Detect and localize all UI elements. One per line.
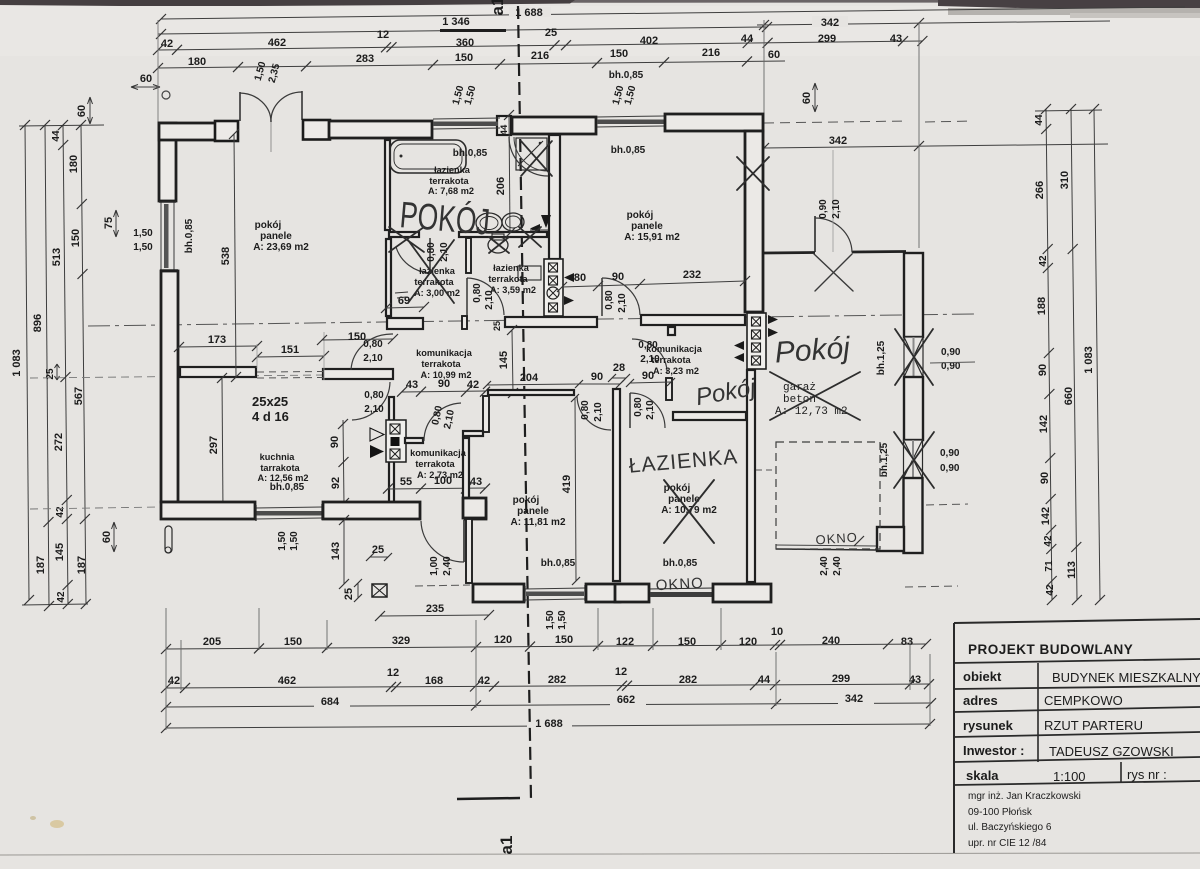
- svg-text:terrakota: terrakota: [415, 459, 455, 469]
- svg-text:09-100 Płońsk: 09-100 Płońsk: [968, 807, 1033, 818]
- door pokoj 15,91-komunikacja arc lower: [632, 339, 667, 373]
- svg-text:282: 282: [548, 674, 566, 686]
- svg-text:bh.0,85: bh.0,85: [184, 218, 195, 253]
- section line a1 vertical dashed: [518, 6, 531, 800]
- svg-text:Pokój: Pokój: [774, 331, 852, 369]
- wall pokoj 11,81 / 10,79 divider (12): [613, 389, 620, 581]
- svg-text:90: 90: [1039, 472, 1051, 484]
- wall pokoj 10,79 right / garage left lower: [747, 370, 755, 582]
- svg-text:143: 143: [330, 542, 342, 560]
- svg-text:A: 3,00 m2: A: 3,00 m2: [414, 288, 460, 298]
- svg-text:bh.0,85: bh.0,85: [663, 558, 698, 569]
- black triangle marker at shower wall: [541, 215, 551, 228]
- left dimension column 44-513-272-42-145-42: [63, 125, 68, 604]
- svg-text:bh.1,25: bh.1,25: [879, 442, 890, 477]
- handwritten X over basins: [519, 227, 541, 247]
- svg-text:42: 42: [168, 675, 180, 687]
- window top 216 (pokoj 15,91): [597, 120, 664, 125]
- svg-text:180: 180: [188, 56, 206, 68]
- svg-text:1,50: 1,50: [133, 242, 153, 253]
- svg-text:2,10: 2,10: [363, 353, 383, 364]
- svg-text:1 083: 1 083: [11, 349, 23, 377]
- svg-text:187: 187: [76, 556, 88, 574]
- right columns top connector line: [1035, 110, 1102, 111]
- svg-text:150: 150: [284, 636, 302, 648]
- balcony double door leaves: [239, 92, 241, 121]
- corridor north wall y316: center segment: [462, 316, 467, 329]
- svg-text:142: 142: [1038, 415, 1050, 433]
- svg-text:266: 266: [1034, 181, 1046, 199]
- svg-text:299: 299: [832, 673, 850, 685]
- left dimension column 896-187: [45, 125, 49, 606]
- bottom wall east of entrance: [465, 502, 486, 519]
- right dimension column 310-660-113: [1071, 109, 1077, 600]
- svg-text:90: 90: [612, 271, 624, 283]
- svg-text:42: 42: [161, 38, 173, 50]
- wall garage right: bottom segment outlined: [904, 478, 923, 553]
- svg-text:188: 188: [1036, 297, 1048, 315]
- svg-text:25x25: 25x25: [252, 394, 288, 409]
- extension line garage wall top: [763, 20, 765, 150]
- wall top row: segment balcony to lazienka: [329, 121, 432, 138]
- svg-text:0,80: 0,80: [472, 283, 483, 303]
- svg-text:1,50: 1,50: [289, 531, 300, 551]
- wall top row: pokoj 23,69 left segment: [159, 123, 217, 140]
- door kuchnia upper arc: [351, 334, 393, 370]
- svg-text:0,80: 0,80: [426, 242, 437, 262]
- svg-text:CEMPKOWO: CEMPKOWO: [1044, 693, 1123, 708]
- garage dashed inner line: [756, 469, 776, 471]
- svg-text:POKÓJ: POKÓJ: [398, 194, 491, 243]
- wall left exterior lower: [161, 271, 178, 502]
- right dimension column 1083: [1094, 109, 1100, 600]
- dimension row 342 garage top: [757, 21, 1110, 25]
- svg-text:A: 15,91 m2: A: 15,91 m2: [624, 232, 680, 243]
- svg-text:panele: panele: [517, 506, 549, 517]
- door lazienka 3,00 leaf and arc: [429, 238, 431, 273]
- pokoj 11,81 south wall west segment: [473, 584, 524, 602]
- pillar 25x25 at entrance: [372, 584, 387, 597]
- svg-text:462: 462: [268, 37, 286, 49]
- svg-text:90: 90: [591, 371, 603, 383]
- svg-text:42: 42: [55, 506, 66, 518]
- svg-text:150: 150: [455, 52, 473, 64]
- svg-text:OKNO: OKNO: [655, 575, 704, 594]
- svg-text:OKNO: OKNO: [815, 530, 858, 548]
- svg-text:bh.0,85: bh.0,85: [453, 148, 488, 159]
- svg-text:2,10: 2,10: [645, 400, 656, 420]
- svg-text:A: 11,81 m2: A: 11,81 m2: [510, 517, 565, 528]
- corridor north wall y316: east segment: [641, 315, 745, 325]
- washbasin 1 lazienka 3,59: [476, 213, 502, 233]
- wall under bathtub row (lazienka 7,68 south): [459, 232, 547, 237]
- svg-text:terrakota: terrakota: [429, 176, 469, 186]
- svg-text:662: 662: [617, 694, 635, 706]
- svg-text:2,10: 2,10: [364, 404, 384, 415]
- chimney block in garage wall: [747, 313, 766, 369]
- lazienka 3,00 top wall stub: [389, 232, 419, 237]
- dim row 55-100-43 komunikacja: [388, 488, 486, 489]
- svg-text:10: 10: [771, 626, 783, 638]
- svg-text:42: 42: [1038, 255, 1049, 267]
- bottom dim row 2: 42-462-12-168-42-282-12-282-44-299-43: [166, 684, 930, 688]
- svg-text:obiekt: obiekt: [963, 669, 1002, 684]
- wall pokoj 11,81 bay west: [466, 519, 472, 583]
- svg-text:80: 80: [574, 272, 586, 284]
- dim row 43-90-42 above pokoj 11,81: [402, 391, 486, 392]
- svg-text:ul. Baczyńskiego 6: ul. Baczyńskiego 6: [968, 822, 1052, 833]
- svg-text:PROJEKT BUDOWLANY: PROJEKT BUDOWLANY: [968, 642, 1133, 657]
- dim 143 vertical: [343, 520, 345, 584]
- left extension line to top rows: [157, 20, 159, 122]
- vent triangles: [564, 273, 574, 282]
- svg-text:90: 90: [1037, 364, 1049, 376]
- svg-text:0,80: 0,80: [363, 339, 383, 350]
- small circle mark at wall corner: [162, 91, 170, 99]
- handwritten X garage right window upper: [895, 329, 933, 385]
- yellow specks bottom left: [50, 820, 64, 828]
- svg-text:43: 43: [406, 379, 418, 391]
- svg-text:145: 145: [54, 543, 66, 561]
- corridor south wall: west segment: [180, 367, 256, 377]
- dim 75 rotated with arrows: [115, 210, 117, 237]
- svg-text:120: 120: [494, 634, 512, 646]
- svg-text:pokój: pokój: [627, 210, 654, 221]
- corridor north wall y316: west stub: [387, 318, 423, 329]
- dim 25 pillar horizontal: [370, 556, 388, 558]
- garage door scribble X below opening: [814, 254, 853, 291]
- toilet lazienka 3,59: [488, 237, 508, 253]
- handwritten X over wall stub near POKOJ: [389, 227, 424, 252]
- svg-text:42: 42: [1045, 584, 1056, 596]
- svg-text:342: 342: [845, 693, 863, 705]
- dim 90 door pokoj 10,79: [630, 382, 671, 383]
- svg-text:25: 25: [343, 588, 355, 600]
- left dimension column 180-150-567: [81, 125, 86, 604]
- middle horizontal dash-dot line: [88, 314, 975, 326]
- door komunikacja 2,73 arc: [424, 403, 461, 441]
- svg-text:92: 92: [330, 477, 342, 489]
- wall interior 12 between pokoj and lazienka (upper): [385, 140, 390, 230]
- svg-text:44: 44: [758, 674, 771, 686]
- svg-text:216: 216: [531, 50, 549, 62]
- handwritten X over garaz label: [770, 372, 860, 420]
- svg-text:0,90: 0,90: [941, 347, 961, 358]
- garage dashed projection rectangle: [776, 442, 880, 549]
- dim 204 + 90 above pokoj 11,81: [487, 384, 579, 385]
- pillar notch under wall: [668, 327, 675, 335]
- door lazienka 3,59 leaf+arc: [466, 278, 468, 316]
- dim 28 stub: [612, 377, 626, 379]
- svg-text:1:100: 1:100: [1053, 769, 1086, 784]
- window pokoj 10,79 OKNO with dark sill: [650, 592, 712, 597]
- dim 25 pillar rotated: [357, 583, 359, 598]
- svg-text:adres: adres: [963, 693, 998, 708]
- dim 60 left top with arrows: [131, 86, 160, 88]
- garage right window 2 with X (0,90): [904, 440, 923, 478]
- svg-text:a1: a1: [488, 0, 507, 15]
- svg-text:terrakota: terrakota: [651, 355, 691, 365]
- window pokoj 11,81 1,50: [525, 588, 585, 589]
- svg-text:71: 71: [1044, 560, 1055, 572]
- svg-text:60: 60: [76, 105, 88, 117]
- svg-text:terrakota: terrakota: [421, 359, 461, 369]
- svg-text:206: 206: [495, 177, 507, 195]
- svg-text:panele: panele: [631, 221, 663, 232]
- svg-text:komunikacja: komunikacja: [410, 448, 467, 458]
- garage top dim 342 line: [764, 144, 1108, 148]
- title block frame: [954, 619, 1200, 623]
- bottom extension lines: [165, 608, 167, 730]
- svg-text:150: 150: [70, 229, 82, 247]
- svg-text:25: 25: [372, 544, 384, 556]
- svg-text:44: 44: [499, 124, 510, 135]
- svg-text:42: 42: [56, 591, 67, 603]
- svg-text:2,40: 2,40: [442, 556, 453, 576]
- balcony cusp line: [270, 122, 272, 152]
- kuchnia sink triangle: [370, 445, 384, 458]
- bottom dim row 4: 1688 overall: [166, 724, 930, 728]
- balcony door jamb right (outlined): [303, 120, 330, 140]
- svg-text:42: 42: [467, 379, 479, 391]
- top wall jamb with 44 label: [497, 116, 511, 135]
- svg-text:1,50: 1,50: [277, 531, 288, 551]
- svg-text:TADEUSZ GZOWSKI: TADEUSZ GZOWSKI: [1049, 744, 1174, 759]
- svg-text:232: 232: [683, 269, 701, 281]
- wall pokoj 11,81 west upper (12): [483, 396, 489, 432]
- handwritten X over lazienka 3,00: [408, 240, 454, 303]
- wall house/garage 44 upper: [745, 131, 763, 312]
- svg-text:12: 12: [377, 29, 389, 41]
- svg-text:łazienka: łazienka: [434, 165, 471, 175]
- svg-text:bh.0,85: bh.0,85: [609, 70, 644, 81]
- dim 60 rotated lower left: [113, 522, 115, 552]
- shower lazienka 7,68: [516, 138, 547, 170]
- svg-text:A: 12,56 m2: A: 12,56 m2: [257, 473, 308, 483]
- svg-text:A: 10,99 m2: A: 10,99 m2: [420, 370, 471, 380]
- svg-text:272: 272: [53, 433, 65, 451]
- svg-text:1,50: 1,50: [133, 228, 153, 239]
- svg-text:rys nr :: rys nr :: [1127, 767, 1167, 782]
- svg-text:2,40: 2,40: [819, 556, 830, 576]
- svg-text:283: 283: [356, 53, 374, 65]
- svg-text:bh.1,25: bh.1,25: [876, 340, 887, 375]
- garage door dim extension line: [832, 150, 834, 252]
- door pokoj 10,79 leaf+arc: [629, 393, 631, 428]
- svg-text:538: 538: [220, 247, 232, 265]
- svg-text:150: 150: [678, 636, 696, 648]
- svg-text:0,90: 0,90: [818, 199, 829, 219]
- dim 206 vertical lazienka: [509, 115, 510, 233]
- svg-text:329: 329: [392, 635, 410, 647]
- dim 173 pokoj 23,69: [179, 346, 257, 347]
- bottom window 150 kuchnia: [256, 511, 322, 516]
- garage bottom right corner outlined: [877, 527, 904, 551]
- bottom wall kuchnia segment: [161, 502, 255, 519]
- svg-text:90: 90: [329, 436, 341, 448]
- section mark bottom horizontal: [457, 798, 520, 799]
- dim 151 opening: [257, 356, 324, 357]
- svg-text:A: 7,68 m2: A: 7,68 m2: [428, 186, 474, 196]
- svg-text:142: 142: [1040, 507, 1052, 525]
- bottom dim row 235: [380, 615, 489, 616]
- svg-text:0,80: 0,80: [364, 390, 384, 401]
- handwritten X over pokoj 10,79 label: [664, 480, 714, 543]
- svg-text:235: 235: [426, 603, 444, 615]
- svg-text:0,90: 0,90: [940, 448, 960, 459]
- svg-text:25: 25: [545, 27, 557, 39]
- dashed line entrance axis: [415, 585, 470, 586]
- wall top row: lazienka 7,68 segment: [512, 117, 596, 134]
- cabinet lazienka 3,59: [518, 266, 541, 280]
- svg-text:120: 120: [739, 636, 757, 648]
- svg-text:684: 684: [321, 696, 340, 708]
- svg-text:2,40: 2,40: [832, 556, 843, 576]
- dim 60 rotated right of garage wall: [814, 83, 816, 112]
- svg-text:896: 896: [32, 314, 44, 332]
- rain pipe capsule below corner: [165, 526, 172, 553]
- svg-text:bh.0,85: bh.0,85: [541, 558, 576, 569]
- svg-text:łazienka: łazienka: [493, 263, 530, 273]
- svg-text:1 688: 1 688: [515, 7, 543, 19]
- komunikacja 3,23 south wall: [673, 412, 746, 420]
- svg-text:60: 60: [801, 92, 813, 104]
- svg-text:0,90: 0,90: [940, 463, 960, 474]
- scanner dark top edge: [0, 0, 1200, 3]
- bottom wall entrance segment: [323, 502, 420, 519]
- dim 297 vertical kuchnia: [222, 378, 223, 512]
- svg-text:44: 44: [1034, 114, 1045, 126]
- dimension row 1688 top: [161, 7, 1185, 19]
- svg-text:2,10: 2,10: [617, 293, 628, 313]
- svg-text:28: 28: [613, 362, 625, 374]
- dim 419 vertical pokoj 11,81: [575, 398, 576, 581]
- svg-text:komunikacja: komunikacja: [646, 344, 703, 354]
- svg-text:205: 205: [203, 636, 221, 648]
- svg-text:A: 3,59 m2: A: 3,59 m2: [490, 285, 536, 295]
- balcony door jamb left (outlined): [215, 121, 238, 141]
- corridor south wall: east segment: [323, 369, 393, 379]
- svg-text:1,50: 1,50: [545, 610, 556, 630]
- dim 69 lazienka 3,00: [386, 307, 424, 308]
- svg-text:A: 23,69 m2: A: 23,69 m2: [253, 242, 309, 253]
- pokoj 11,81 south wall east segment: [586, 584, 620, 602]
- bottom dim row 3: 684-662-342: [166, 703, 931, 707]
- svg-text:297: 297: [208, 436, 220, 454]
- svg-text:rysunek: rysunek: [963, 718, 1014, 733]
- svg-text:168: 168: [425, 675, 443, 687]
- left dimension column 1083: [25, 125, 29, 600]
- handwritten X over toilet: [489, 237, 509, 253]
- svg-text:bh.0,85: bh.0,85: [270, 482, 305, 493]
- svg-text:282: 282: [679, 674, 697, 686]
- handwritten X garage right window lower: [894, 432, 934, 488]
- dimension row 1346: [158, 27, 767, 34]
- wall garage right: middle segment outlined: [904, 377, 923, 440]
- svg-text:187: 187: [35, 556, 47, 574]
- washbasin 2 lazienka 3,59: [502, 213, 524, 231]
- door pokoj 11,81 arc: [577, 396, 611, 430]
- wall interior 12 between pokoj/lazienka (lower): [386, 239, 391, 316]
- garage door swing arc: [815, 218, 852, 253]
- dashed lines right of garage: [926, 504, 968, 505]
- bottom dim row 1: 205-150-329-120-150-122-150-120-10-240-83: [166, 644, 926, 649]
- dim row 80-90-232: [562, 281, 745, 287]
- bathtub lazienka 7,68: [390, 140, 466, 173]
- svg-text:60: 60: [768, 49, 780, 61]
- svg-text:1,50: 1,50: [557, 610, 568, 630]
- svg-text:43: 43: [909, 674, 921, 686]
- dim 538 vertical pokoj 23,69: [234, 134, 236, 377]
- svg-text:panele: panele: [260, 231, 292, 242]
- handwritten X over chimney top: [737, 157, 769, 190]
- dimension row 42-462-12-360-25-402-44-299-43: [158, 41, 922, 50]
- wall pokoj 11,81 west step: [463, 431, 483, 436]
- pokoj 10,79 south wall east segment: [713, 584, 771, 602]
- left extension dashed lines: [30, 507, 160, 509]
- svg-text:12: 12: [387, 667, 399, 679]
- svg-text:1 688: 1 688: [535, 718, 563, 730]
- svg-text:42: 42: [478, 675, 490, 687]
- door pokoj 15,91 leaf+arc: [601, 278, 603, 316]
- svg-text:151: 151: [281, 344, 299, 356]
- svg-text:1 346: 1 346: [442, 16, 470, 28]
- dim 150 corridor slab: [322, 339, 393, 340]
- svg-text:komunikacja: komunikacja: [416, 348, 473, 358]
- svg-text:RZUT PARTERU: RZUT PARTERU: [1044, 718, 1143, 733]
- dashed line at garage top extension: [764, 121, 908, 123]
- svg-text:0,80: 0,80: [633, 397, 644, 417]
- faucet mark lazienka 3,00: [395, 292, 408, 293]
- svg-text:60: 60: [140, 73, 152, 85]
- balcony double door arcs: [240, 93, 271, 122]
- wall interior 12 lazienka divider: [466, 238, 471, 273]
- dashed centerline chimney wall: [752, 134, 754, 310]
- wall kuchnia east (12): [389, 397, 394, 502]
- svg-text:mgr inż. Jan Kraczkowski: mgr inż. Jan Kraczkowski: [968, 791, 1081, 802]
- svg-text:145: 145: [498, 351, 510, 369]
- svg-text:pokój: pokój: [255, 220, 282, 231]
- svg-text:113: 113: [1066, 561, 1078, 579]
- svg-text:204: 204: [520, 372, 539, 384]
- svg-text:55: 55: [400, 476, 412, 488]
- svg-text:43: 43: [890, 33, 902, 45]
- svg-text:42: 42: [1043, 535, 1054, 547]
- wall top row: right segment to garage: [665, 114, 763, 131]
- svg-text:BUDYNEK MIESZKALNY: BUDYNEK MIESZKALNY: [1052, 670, 1200, 685]
- svg-text:150: 150: [610, 48, 628, 60]
- svg-text:216: 216: [702, 47, 720, 59]
- wall pokoj 11,81 north (12): [488, 390, 574, 395]
- dim 90/92 vertical kuchnia wall: [343, 420, 344, 505]
- svg-text:310: 310: [1059, 171, 1071, 189]
- svg-text:25: 25: [492, 321, 502, 331]
- svg-text:44: 44: [51, 130, 62, 142]
- bottom sheet edge line: [0, 853, 1200, 855]
- entrance door leaf+arc: [463, 520, 465, 562]
- svg-text:567: 567: [73, 387, 85, 405]
- svg-text:462: 462: [278, 675, 296, 687]
- svg-text:tarrakota: tarrakota: [260, 463, 300, 473]
- svg-text:2,10: 2,10: [831, 199, 842, 219]
- svg-text:kuchnia: kuchnia: [260, 452, 296, 462]
- svg-text:419: 419: [561, 475, 573, 493]
- garage top wall outline left segment: [764, 251, 815, 254]
- svg-text:299: 299: [818, 33, 836, 45]
- extension lines near corridor opening: [256, 344, 258, 368]
- svg-text:402: 402: [640, 35, 658, 47]
- svg-text:360: 360: [456, 37, 474, 49]
